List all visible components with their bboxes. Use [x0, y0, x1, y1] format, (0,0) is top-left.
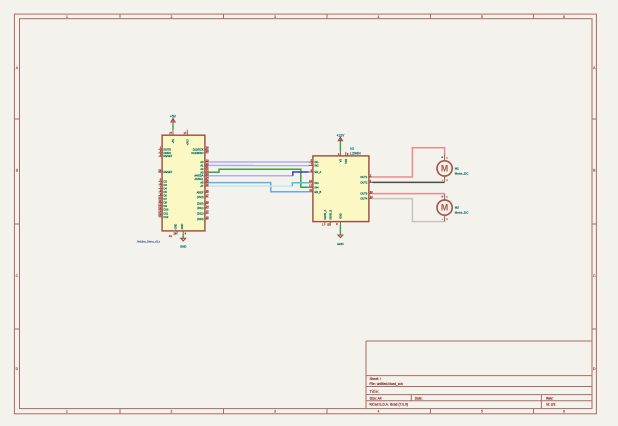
svg-text:D8: D8 — [164, 201, 168, 205]
svg-text:13: 13 — [158, 206, 161, 210]
svg-text:Title:: Title: — [370, 389, 380, 394]
svg-text:D10: D10 — [164, 208, 169, 212]
svg-text:-: - — [442, 217, 443, 221]
ground below U2 — [337, 225, 343, 246]
ground below A1 — [180, 234, 186, 248]
svg-text:3: 3 — [274, 410, 276, 414]
svg-text:6: 6 — [563, 410, 565, 414]
A1 value Arduino_Nano_v3.x — [137, 239, 161, 243]
svg-text:D11: D11 — [164, 211, 169, 215]
svg-text:14: 14 — [158, 210, 161, 214]
wire to U2 EN_A (blue) — [293, 172, 309, 176]
svg-text:RESET: RESET — [164, 154, 173, 158]
U2 pin 1 SENSE_A (bottom) — [322, 210, 327, 227]
svg-text:AREF: AREF — [197, 191, 204, 195]
zone row labels right — [593, 66, 596, 371]
svg-text:17: 17 — [206, 193, 209, 197]
svg-text:D6: D6 — [164, 194, 168, 198]
svg-text:+5V: +5V — [170, 115, 177, 119]
svg-text:A1: A1 — [200, 163, 204, 167]
U2 right pins OUT1 OUT2 OUT3 OUT4 — [360, 173, 373, 200]
zone ticks right edge — [592, 119, 596, 329]
svg-text:30: 30 — [206, 149, 209, 153]
svg-text:4: 4 — [378, 410, 380, 414]
svg-text:D9: D9 — [164, 204, 168, 208]
svg-text:Motor_DC: Motor_DC — [455, 171, 470, 175]
svg-text:Motor_DC: Motor_DC — [455, 211, 470, 215]
zone column labels bottom — [66, 410, 565, 414]
A1 pin 17 +3V3 (top) — [184, 130, 190, 146]
svg-text:A3: A3 — [200, 170, 204, 174]
svg-text:11: 11 — [309, 188, 312, 192]
svg-text:GND: GND — [340, 213, 343, 219]
title block Title line — [370, 389, 380, 394]
svg-text:OUT2: OUT2 — [360, 180, 367, 184]
title block Size/Date/Rev line — [370, 397, 554, 401]
A1 right pins with numbers and names — [191, 146, 209, 221]
svg-text:M1: M1 — [455, 166, 459, 170]
wire U2 OUT4 to M2 minus (gray) — [372, 199, 444, 222]
svg-text:10: 10 — [158, 195, 161, 199]
A1 pin 27 +5V (top) — [169, 130, 175, 144]
U2 value L298N — [350, 152, 361, 156]
U2 pin 4 VS (top) — [338, 152, 343, 163]
U2 reference designator — [350, 147, 354, 151]
svg-text:D2: D2 — [164, 179, 168, 183]
svg-text:5: 5 — [481, 410, 483, 414]
svg-text:18: 18 — [206, 189, 209, 193]
svg-text:15: 15 — [206, 210, 209, 214]
svg-text:Rev:: Rev: — [546, 397, 553, 401]
svg-text:2: 2 — [171, 410, 173, 414]
svg-text:Sheet: /: Sheet: / — [370, 377, 381, 381]
svg-text:IN2: IN2 — [315, 164, 320, 168]
svg-text:A6: A6 — [200, 181, 204, 185]
title block Sheet line — [370, 377, 381, 381]
svg-text:GND: GND — [337, 242, 343, 246]
svg-text:15: 15 — [158, 213, 161, 217]
svg-text:12: 12 — [309, 184, 312, 188]
wire A7 pale segment — [209, 185, 293, 187]
wire +5V to A1 pin 27 — [172, 124, 174, 130]
motor driver U2 body — [313, 156, 369, 222]
U2 pin 15 SENSE_B (bottom) — [327, 210, 332, 227]
svg-text:(D11): (D11) — [197, 206, 203, 210]
svg-text:RESET: RESET — [164, 170, 173, 174]
svg-text:Date:: Date: — [415, 397, 423, 401]
svg-text:GND: GND — [175, 224, 178, 230]
svg-text:VS: VS — [340, 159, 343, 163]
svg-text:3: 3 — [274, 15, 276, 19]
svg-text:12: 12 — [158, 203, 161, 207]
zone row labels left — [16, 66, 19, 371]
svg-text:D12: D12 — [164, 215, 169, 219]
svg-text:A7: A7 — [200, 184, 204, 188]
svg-text:A1: A1 — [169, 234, 173, 238]
svg-text:28: 28 — [158, 169, 161, 173]
svg-text:EN_B: EN_B — [315, 190, 322, 194]
svg-text:IN3: IN3 — [315, 181, 320, 185]
svg-text:M: M — [441, 203, 448, 213]
svg-text:(D12): (D12) — [197, 211, 204, 215]
svg-text:Arduino_Nano_v3.x: Arduino_Nano_v3.x — [137, 239, 161, 243]
svg-text:SENS_B: SENS_B — [330, 210, 333, 220]
wire A4 to junction (lavender) — [209, 175, 293, 177]
svg-text:GND: GND — [181, 224, 184, 230]
svg-text:A5/SCL: A5/SCL — [195, 177, 204, 181]
wire U2 OUT3 to M2 plus (red) — [372, 193, 444, 195]
A1 pin 4 GND (bottom) — [181, 224, 187, 236]
zone ticks top edge — [120, 14, 534, 19]
svg-text:11: 11 — [159, 199, 162, 203]
U2 left pins IN1 IN2 EN_A IN3 IN4 EN_B — [309, 158, 322, 193]
svg-text:VSS: VSS — [345, 158, 348, 163]
svg-text:(D13): (D13) — [197, 217, 204, 221]
wire A3 to U2 IN4 (green) — [209, 169, 309, 187]
svg-text:U2: U2 — [350, 147, 354, 151]
MCU module A1 body — [162, 135, 205, 231]
svg-text:File: untitled.kicad_sch: File: untitled.kicad_sch — [370, 382, 404, 386]
title block File line — [370, 382, 404, 386]
svg-text:+12V: +12V — [337, 133, 346, 137]
A1 reference designator — [169, 234, 173, 238]
motor M1 — [437, 154, 469, 182]
svg-text:SENS_A: SENS_A — [324, 210, 327, 220]
svg-text:OUT3: OUT3 — [360, 192, 367, 196]
A1 left pins with numbers and names — [158, 146, 172, 219]
svg-text:16: 16 — [206, 146, 209, 150]
svg-text:(D10): (D10) — [197, 202, 204, 206]
title block KiCad/Id line — [370, 402, 556, 406]
svg-text:+: + — [441, 156, 443, 160]
svg-text:KiCad E.D.A. kicad (7.0.0): KiCad E.D.A. kicad (7.0.0) — [370, 402, 409, 406]
A1 pin 29 GND (bottom) — [174, 224, 178, 236]
zone column labels top — [66, 15, 565, 19]
svg-text:2: 2 — [171, 15, 173, 19]
svg-text:M2: M2 — [455, 206, 459, 210]
svg-text:M: M — [441, 164, 448, 174]
svg-text:6: 6 — [563, 15, 565, 19]
svg-text:D4: D4 — [164, 186, 168, 190]
svg-text:D13/SCK: D13/SCK — [193, 147, 204, 151]
svg-text:OUT1: OUT1 — [360, 175, 367, 179]
svg-text:14: 14 — [206, 205, 209, 209]
power flag +5V — [170, 115, 177, 125]
svg-text:A2: A2 — [200, 167, 204, 171]
svg-text:D1/TX: D1/TX — [164, 147, 172, 151]
svg-text:A4/SDA: A4/SDA — [194, 174, 203, 178]
svg-text:A0: A0 — [200, 160, 204, 164]
wire U2 OUT1 to M1 plus (red) — [372, 148, 444, 177]
svg-text:D12/MISO: D12/MISO — [191, 151, 203, 155]
svg-text:D0/RX: D0/RX — [164, 151, 172, 155]
wire to U2 IN3 (cyan) — [292, 183, 308, 186]
title block outline — [366, 341, 592, 409]
zone ticks bottom edge — [120, 409, 534, 414]
svg-text:Size: A4: Size: A4 — [370, 397, 382, 401]
svg-text:1: 1 — [66, 410, 68, 414]
motor M2 — [437, 194, 469, 222]
svg-text:5: 5 — [481, 15, 483, 19]
svg-text:GND: GND — [180, 244, 186, 248]
U2 pin 9 VSS (top) — [345, 152, 349, 164]
wire U2 OUT2 to M1 minus (black) — [372, 181, 444, 183]
U2 pin 8 GND (bottom) — [336, 213, 342, 226]
svg-text:4: 4 — [378, 15, 380, 19]
svg-text:(3V3): (3V3) — [197, 195, 203, 199]
svg-text:10: 10 — [309, 179, 312, 183]
zone ticks left edge — [14, 119, 19, 329]
svg-text:+3V3: +3V3 — [186, 139, 189, 146]
svg-text:1: 1 — [66, 15, 68, 19]
wire A1 to U2 IN2 — [209, 164, 309, 166]
power flag +12V — [337, 133, 346, 142]
svg-text:13: 13 — [206, 200, 209, 204]
wire A6 to U2 EN_B (medium blue) — [209, 183, 309, 192]
svg-text:EN_A: EN_A — [315, 170, 322, 174]
svg-text:-: - — [442, 178, 443, 182]
wire A0 to U2 IN1 — [209, 161, 309, 163]
svg-text:OUT4: OUT4 — [360, 197, 367, 201]
svg-text:Id: 2/2: Id: 2/2 — [546, 403, 555, 407]
svg-text:IN4: IN4 — [315, 185, 320, 189]
svg-text:D5: D5 — [164, 190, 168, 194]
wire +12V to U2 pin 4 — [339, 142, 341, 152]
svg-text:D7: D7 — [164, 197, 168, 201]
svg-text:D3: D3 — [164, 183, 168, 187]
svg-text:+5V: +5V — [172, 139, 175, 144]
svg-text:L298N: L298N — [350, 152, 361, 156]
svg-text:IN1: IN1 — [315, 160, 320, 164]
svg-text:+: + — [441, 195, 443, 199]
svg-text:16: 16 — [206, 215, 209, 219]
